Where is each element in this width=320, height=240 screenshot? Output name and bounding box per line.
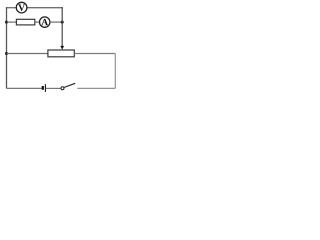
wire right vertical to wiper	[61, 7, 63, 47]
node junction left-middle	[5, 21, 8, 24]
switch S1	[61, 83, 75, 89]
wire ammeter to node	[50, 21, 62, 23]
node junction right-middle	[61, 21, 64, 24]
resistor R1	[16, 19, 34, 25]
wire top-right horizontal	[27, 7, 63, 9]
wire to rheostat left	[7, 53, 48, 55]
wire battery to switch	[46, 87, 61, 89]
voltmeter V1	[16, 2, 27, 13]
wire resistor to ammeter	[35, 21, 40, 23]
node junction left-lower	[5, 52, 8, 55]
wire rheostat right	[74, 53, 115, 55]
ammeter A1	[40, 17, 50, 27]
rheostat R2	[48, 50, 74, 57]
wire switch to right	[77, 87, 115, 89]
wire top-left horizontal	[7, 7, 17, 9]
battery cell B1	[43, 84, 46, 92]
wiper arrow	[60, 46, 64, 50]
wire left vertical	[6, 7, 8, 88]
wire right vertical	[114, 54, 116, 89]
wire bottom-left horizontal	[7, 87, 43, 89]
wire middle-left horizontal	[7, 21, 17, 23]
